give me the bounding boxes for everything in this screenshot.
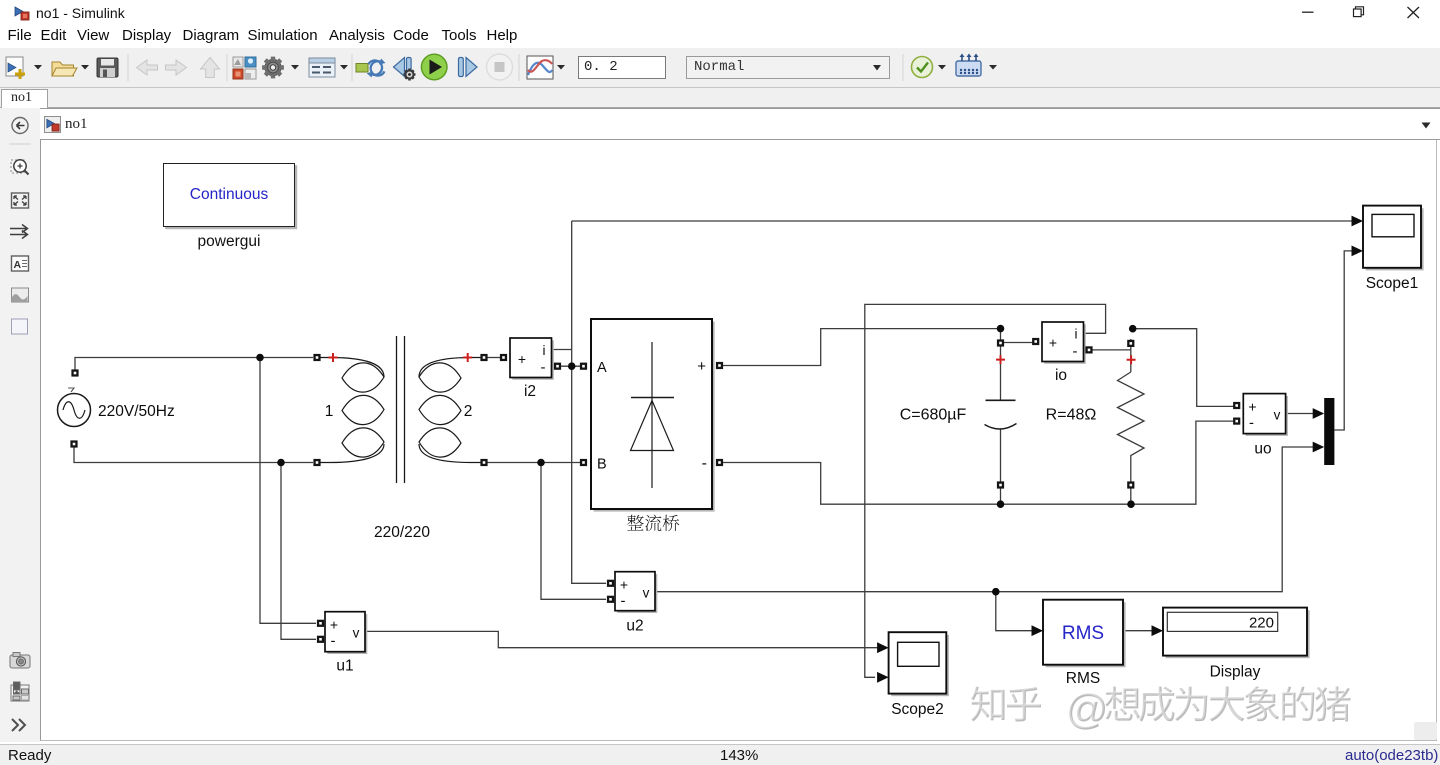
svg-text:i: i [1075,327,1078,342]
svg-text:io: io [1055,367,1067,384]
svg-text:Scope2: Scope2 [891,701,944,718]
svg-text:-: - [1249,415,1254,432]
svg-text:v: v [1274,408,1281,423]
svg-text:C=680µF: C=680µF [900,407,967,424]
svg-text:220/220: 220/220 [374,524,430,541]
svg-text:2: 2 [464,403,473,420]
svg-text:+: + [518,351,526,367]
svg-text:v: v [353,626,360,641]
svg-text:+: + [330,617,338,633]
svg-text:@: @ [1065,685,1108,732]
svg-text:i2: i2 [524,383,536,400]
svg-text:220V/50Hz: 220V/50Hz [98,403,175,420]
svg-text:R=48Ω: R=48Ω [1046,407,1097,424]
svg-text:+: + [697,358,706,375]
svg-text:220: 220 [1249,615,1274,632]
svg-text:v: v [643,586,650,601]
svg-text:+: + [620,577,628,593]
svg-text:+: + [1049,335,1057,351]
svg-text:Scope1: Scope1 [1366,275,1419,292]
svg-text:-: - [621,593,626,610]
svg-text:Display: Display [1210,664,1261,681]
svg-text:B: B [597,457,607,473]
svg-text:uo: uo [1254,441,1271,458]
svg-text:i: i [543,343,546,358]
svg-text:u1: u1 [336,658,353,675]
svg-text:RMS: RMS [1062,623,1104,644]
svg-text:1: 1 [325,403,334,420]
svg-text:-: - [331,633,336,650]
svg-text:A: A [597,360,607,376]
svg-text:+: + [1248,399,1256,415]
svg-text:-: - [702,455,707,472]
svg-text:-: - [541,359,546,376]
svg-text:-: - [1073,343,1078,360]
svg-text:u2: u2 [626,618,643,635]
